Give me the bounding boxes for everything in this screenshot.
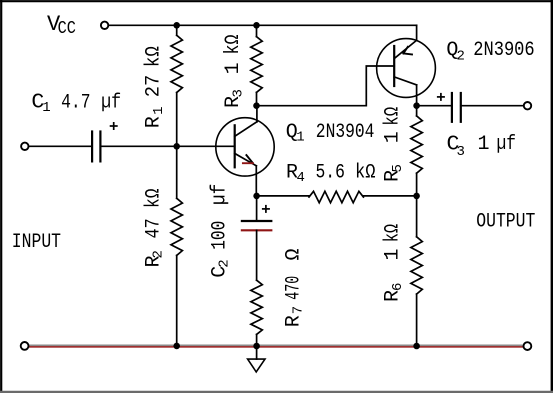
svg-text:2: 2: [151, 250, 167, 258]
svg-text:2: 2: [217, 259, 233, 267]
svg-text:kΩ: kΩ: [382, 107, 405, 126]
wire R3 bottom lead: [256, 92, 258, 105]
wire R5 top lead: [416, 106, 418, 116]
svg-text:2N3906: 2N3906: [473, 39, 535, 62]
label R1 27 kOhm: [143, 46, 167, 128]
svg-text:1: 1: [382, 248, 405, 260]
wire R2 bottom lead: [176, 255, 178, 346]
svg-text:1: 1: [222, 62, 245, 74]
svg-text:47: 47: [142, 218, 165, 238]
node dots: [173, 22, 420, 349]
svg-text:7: 7: [290, 306, 306, 314]
svg-text:3: 3: [457, 144, 465, 160]
node R5-R6: [413, 193, 420, 200]
capacitor C1: [92, 132, 100, 162]
node Q2 collector: [413, 102, 420, 109]
svg-text:OUTPUT: OUTPUT: [476, 211, 535, 234]
wire node to C2: [256, 196, 258, 221]
node R3 top: [253, 22, 260, 29]
node Q1 emitter: [253, 193, 260, 200]
svg-text:470: 470: [282, 276, 305, 300]
svg-text:kΩ: kΩ: [355, 161, 376, 184]
svg-text:kΩ: kΩ: [382, 224, 405, 243]
transistor Q2: [377, 39, 436, 98]
wire C3 to output: [461, 105, 524, 107]
wire Q2 collector node to C3: [417, 105, 452, 107]
terminal output ground: [524, 342, 532, 350]
Q2 emitter arrow: [403, 47, 412, 55]
wire Q1 emitter to R4: [257, 195, 309, 197]
svg-text:kΩ: kΩ: [143, 46, 166, 67]
svg-text:kΩ: kΩ: [222, 35, 245, 55]
wire C1 to Q1 base: [100, 145, 234, 147]
resistor R3: [251, 37, 262, 93]
label C3 1 uf: [447, 132, 517, 160]
label R4 5.6 kOhm: [286, 161, 376, 186]
node R1 top: [173, 22, 180, 29]
Q1 emitter arrow: [243, 155, 253, 163]
wire Q1 collector node to Q2 base: [257, 66, 395, 106]
label VCC: [47, 12, 76, 39]
svg-text:2N3904: 2N3904: [316, 121, 375, 144]
svg-text:1: 1: [151, 106, 167, 114]
label R3 1 kOhm: [222, 35, 246, 109]
capacitor C2: [242, 221, 271, 230]
resistor R4: [309, 191, 363, 202]
wire VCC rail: [109, 24, 417, 26]
svg-text:1: 1: [296, 130, 304, 146]
node R2 bottom rail: [173, 343, 180, 350]
svg-text:1: 1: [478, 133, 490, 156]
plus signs: [110, 93, 445, 213]
svg-text:1: 1: [42, 100, 50, 116]
terminal input: [21, 143, 28, 150]
svg-text:Ω: Ω: [282, 248, 305, 260]
ground: [248, 359, 265, 372]
svg-text:R: R: [143, 116, 166, 128]
resistor R5: [411, 116, 422, 173]
node R6 bottom rail: [413, 343, 420, 350]
capacitor C3: [452, 93, 461, 122]
svg-text:5: 5: [390, 164, 406, 172]
svg-text:µf: µf: [101, 91, 121, 114]
node ground rail: [253, 343, 260, 350]
wire R5 bottom lead: [416, 173, 418, 196]
wire R7 to rail: [256, 334, 258, 346]
wire Q2 emitter lead: [416, 25, 418, 40]
svg-text:4: 4: [297, 170, 305, 186]
terminal VCC: [101, 22, 108, 29]
svg-text:2: 2: [457, 49, 465, 65]
svg-text:3: 3: [230, 89, 246, 97]
label C1 4.7 uf: [31, 91, 121, 117]
ground rail (gray+red): [29, 345, 523, 347]
resistor R2: [171, 198, 182, 255]
label R7 470 Ohm: [282, 248, 306, 327]
transistor Q1: [216, 118, 274, 176]
wire input to C1: [29, 145, 92, 147]
plus C3: [437, 96, 445, 98]
svg-text:INPUT: INPUT: [12, 231, 61, 254]
svg-text:5.6: 5.6: [316, 161, 345, 184]
wire R6 top lead: [416, 196, 418, 237]
wire R1 top lead: [176, 25, 178, 35]
wire R1 bottom lead: [176, 93, 178, 147]
svg-text:R: R: [282, 315, 305, 327]
terminal input ground: [21, 342, 29, 350]
svg-text:µf: µf: [208, 184, 231, 205]
wire C2 to R7: [256, 230, 258, 280]
svg-text:1: 1: [382, 131, 405, 143]
resistor R6: [411, 237, 422, 294]
label C2 100 uf: [208, 184, 232, 278]
resistor R1: [171, 35, 182, 92]
svg-text:CC: CC: [58, 19, 76, 39]
svg-text:µf: µf: [497, 133, 517, 156]
label Q1 2N3904: [286, 121, 375, 146]
label R2 47 kOhm: [142, 189, 166, 268]
svg-text:6: 6: [390, 283, 406, 291]
plus C2: [262, 208, 270, 210]
node Q1 collector: [253, 102, 260, 109]
terminal output: [524, 102, 531, 109]
svg-text:27: 27: [143, 75, 166, 98]
svg-text:4.7: 4.7: [61, 91, 90, 114]
resistor R7: [251, 280, 262, 334]
wire R4 to R5 node: [363, 195, 416, 197]
label Q2 2N3906: [446, 39, 534, 65]
wire R3 top lead: [256, 25, 258, 36]
ground stub: [256, 346, 258, 359]
svg-text:kΩ: kΩ: [142, 189, 165, 209]
node Q1 base / R1-R2: [173, 143, 180, 150]
terminals: [21, 22, 532, 350]
svg-text:100: 100: [208, 221, 231, 250]
wire R2 top lead: [176, 146, 178, 198]
wire R6 bottom lead: [416, 294, 418, 346]
label R5 1 kOhm: [382, 107, 406, 182]
plus C1: [110, 125, 118, 127]
label R6 1 kOhm: [382, 224, 406, 302]
